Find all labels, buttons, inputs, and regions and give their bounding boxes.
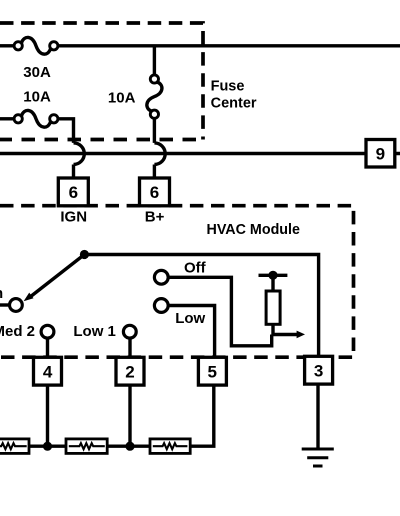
wire resistor row: [29, 445, 66, 448]
fuse F2 right circle: [50, 115, 58, 123]
svg-text:30A: 30A: [23, 64, 51, 81]
connector pin 6 B+ box: [140, 178, 170, 206]
svg-text:HVAC Module: HVAC Module: [207, 222, 301, 238]
wire Off to resistor bottom: [168, 277, 272, 346]
resistor R3 body: [150, 439, 190, 454]
fuse F2 left circle: [14, 115, 22, 123]
connector pin 4 box: [34, 357, 62, 385]
switch wiper arm: [31, 255, 85, 297]
svg-text:B+: B+: [145, 208, 165, 225]
wire second fuse left segment: [0, 117, 15, 120]
junction dot left: [43, 442, 52, 451]
junction dot resistor top: [268, 271, 277, 280]
wire switch common to pin 3: [84, 255, 318, 357]
svg-text:10A: 10A: [23, 88, 51, 105]
junction dot right: [125, 442, 134, 451]
svg-text:9: 9: [376, 145, 385, 164]
wire Med2 to pin 4: [46, 338, 49, 358]
fuse F3 10A bottom circle: [150, 110, 158, 118]
fuse center dashed box: [0, 23, 203, 140]
svg-text:Low: Low: [175, 310, 205, 327]
fuse F1 right circle: [50, 42, 58, 50]
svg-text:6: 6: [150, 183, 159, 202]
resistor R1 body: [0, 439, 29, 454]
arrow output line: [272, 333, 298, 336]
terminal Low circle: [154, 299, 168, 313]
svg-text:4: 4: [43, 362, 53, 381]
svg-text:n: n: [0, 285, 3, 302]
terminal Low 1 circle: [123, 325, 136, 338]
wire resistor row 2: [107, 445, 150, 448]
switch pivot dot: [80, 250, 89, 259]
wire top bus right segment: [58, 44, 400, 47]
fuse F1 left circle: [14, 42, 22, 50]
terminal Off circle: [154, 270, 168, 284]
svg-text:3: 3: [314, 362, 323, 381]
wire resistor bottom stub: [271, 324, 274, 334]
wire resistor top stub: [271, 275, 274, 291]
connector pin 5 box: [198, 357, 226, 385]
svg-text:6: 6: [69, 183, 78, 202]
switch terminal circle left: [10, 299, 23, 312]
arrow head: [297, 331, 305, 339]
resistor R4 body: [266, 291, 280, 324]
wire from F3 down to hop: [153, 119, 156, 143]
svg-text:Med 2: Med 2: [0, 323, 35, 340]
terminal Med 2 circle: [41, 325, 54, 338]
HVAC module dashed box: [0, 206, 354, 358]
svg-text:2: 2: [125, 362, 134, 381]
connector pin 2 box: [116, 357, 144, 385]
wire bus 2 horizontal: [0, 152, 400, 155]
wire Low1 to pin 2: [128, 338, 131, 358]
resistor R3 zigzag: [153, 443, 188, 449]
switch arrowhead: [24, 293, 34, 302]
fuse F2 10A wave: [21, 110, 50, 127]
svg-text:IGN: IGN: [60, 208, 87, 225]
fuse F1 30A wave: [21, 37, 50, 54]
wire vertical fuse drop from top bus: [153, 46, 156, 75]
wire pin 2 to junction: [128, 385, 131, 446]
connector pin 9 box: [366, 140, 395, 168]
ground symbol: [302, 449, 334, 466]
resistor R2 body: [66, 439, 107, 454]
fuse F3 10A wave: [147, 82, 162, 111]
wire hop B+: [154, 143, 165, 165]
wire to left terminal: [0, 303, 9, 306]
svg-text:10A: 10A: [108, 89, 136, 106]
connector pin 6 IGN box: [58, 178, 88, 206]
wire pin 4 to junction: [46, 385, 49, 446]
svg-text:Low 1: Low 1: [73, 323, 116, 340]
svg-text:5: 5: [207, 362, 216, 381]
wire from F2 to IGN drop: [58, 119, 74, 143]
wire hop IGN lower stub: [72, 165, 75, 179]
wire pin 5 down: [190, 385, 214, 446]
wire Low to pin 5: [168, 306, 215, 358]
resistor R2 zigzag: [69, 443, 105, 449]
crossbar at resistor top: [259, 274, 288, 277]
fuse F3 10A top circle: [150, 75, 158, 83]
wire hop IGN: [74, 143, 85, 165]
connector pin 3 box: [305, 356, 333, 384]
wire top bus left segment: [0, 44, 15, 47]
wire hop B+ lower stub: [153, 165, 156, 179]
resistor R1 zigzag: [0, 443, 27, 449]
fuse center dashed box bottom edge: [0, 138, 203, 142]
wire pin 3 to ground: [316, 384, 319, 449]
svg-text:Off: Off: [184, 260, 207, 277]
